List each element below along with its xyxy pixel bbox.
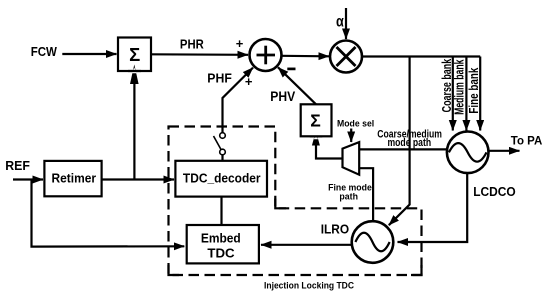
svg-text:PHR: PHR: [180, 37, 204, 51]
wire accumulator U1 to adder: [151, 53, 248, 56]
dashed box corner patch: [275, 199, 286, 209]
block TDC_decoder: [175, 161, 267, 197]
svg-text:Σ: Σ: [310, 110, 321, 130]
svg-text:TDC: TDC: [207, 245, 235, 260]
wire mode sel to mux: [350, 129, 352, 143]
wire alpha to multiplier: [345, 8, 347, 39]
svg-text:To PA: To PA: [511, 133, 543, 147]
svg-text:mode path: mode path: [388, 137, 432, 149]
wire mux to accumulator U2: [310, 131, 343, 158]
svg-text:Fine bank: Fine bank: [467, 68, 481, 114]
wire fine bank line: [479, 57, 481, 131]
multiplier M1: [330, 41, 362, 73]
svg-text:Embed: Embed: [201, 231, 241, 246]
svg-text:path: path: [339, 191, 358, 201]
dashed box corner patch bottom-right: [411, 265, 422, 275]
wire coarse bank line: [452, 57, 454, 131]
wire REF branch to Embed TDC: [32, 180, 185, 247]
wire coarse/medium mode path (LCDCO to mux): [359, 148, 447, 150]
wire LCDCO feedback to ILRO: [398, 173, 468, 242]
block Embed TDC: [187, 225, 259, 263]
svg-text:α: α: [336, 13, 344, 30]
wire FCW to accumulator U1: [62, 53, 116, 55]
svg-text:PHF: PHF: [207, 72, 232, 86]
svg-text:TDC_decoder: TDC_decoder: [183, 170, 261, 185]
adder A1 (phase detector): [250, 39, 282, 71]
svg-text:PHV: PHV: [270, 89, 295, 104]
svg-text:LCDCO: LCDCO: [473, 184, 516, 199]
svg-text:Σ: Σ: [129, 44, 140, 65]
accumulator U2 (sigma box PHV): [301, 104, 332, 136]
node Coarse/medium mode path label: [377, 129, 442, 149]
svg-text:Mode sel: Mode sel: [337, 118, 374, 129]
svg-text:Retimer: Retimer: [52, 171, 97, 186]
dashed box Injection Locking TDC: [169, 127, 422, 276]
svg-text:ILRO: ILRO: [321, 223, 350, 237]
wire accumulator U2 to adder (PHV): [278, 67, 316, 104]
svg-text:+: +: [245, 74, 253, 89]
wire REF to Retimer: [13, 178, 43, 180]
mux MX1: [343, 142, 360, 175]
block Retimer: [44, 161, 101, 196]
wire Retimer to TDC_decoder: [102, 178, 174, 180]
svg-text:Medium bank: Medium bank: [453, 60, 467, 115]
wire medium bank line: [465, 57, 467, 131]
wire switch to TDC_decoder: [221, 155, 223, 161]
dashed box corner patch bottom-left: [169, 265, 180, 275]
node Fine mode path label: [328, 182, 372, 201]
wire multiplier output manifold: [362, 55, 480, 57]
oscillator LCDCO: [447, 132, 489, 174]
wire fine mode path (ILRO to mux): [359, 168, 373, 222]
oscillator ILRO: [352, 221, 394, 263]
wire adder to multiplier: [282, 55, 330, 58]
accumulator U1 (sigma box): [118, 38, 151, 72]
svg-text:REF: REF: [5, 159, 30, 173]
wire LCDCO to PA output: [488, 150, 519, 152]
wire tuning word branch to ILRO: [389, 57, 410, 226]
wire TDC_decoder to Embed TDC: [220, 197, 222, 225]
wire PHF (switch to adder): [223, 68, 254, 133]
svg-text:FCW: FCW: [31, 45, 57, 59]
wire ILRO to Embed TDC: [261, 244, 352, 246]
svg-text:Injection Locking TDC: Injection Locking TDC: [264, 280, 354, 291]
wire feedback to accumulator U1: [128, 65, 141, 180]
minus sign at adder PHV input: [287, 68, 295, 71]
switch S1: [214, 133, 226, 155]
svg-text:+: +: [236, 36, 244, 51]
